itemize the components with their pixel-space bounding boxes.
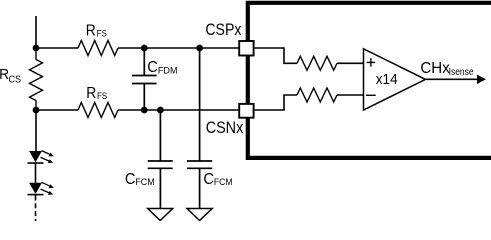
wire to op-amp minus input [337, 94, 364, 96]
LED D1 arrow 1 [42, 151, 51, 155]
LED D1 [35, 110, 37, 151]
wire to op-amp plus input [337, 62, 364, 64]
output wire [426, 78, 479, 80]
LED D2 arrow 1 [42, 182, 51, 186]
svg-text:CSNx: CSNx [206, 119, 244, 137]
node dot top-left [33, 45, 40, 52]
resistor RFS (bottom) [78, 103, 118, 118]
svg-text:C: C [147, 59, 158, 76]
capacitor CFDM [132, 48, 157, 110]
op-amp x14 [364, 49, 426, 110]
svg-text:C: C [203, 171, 214, 188]
node dot CFCM left branch [157, 107, 164, 114]
wire dashed continuation [35, 203, 37, 221]
pin CSPx [239, 41, 253, 56]
svg-text:FDM: FDM [158, 65, 178, 75]
node dot CFCM right branch [196, 45, 203, 52]
wire CSNx to input resistor [255, 95, 297, 110]
wire top stub [35, 16, 37, 48]
svg-text:Isense: Isense [449, 67, 474, 78]
node dot CFDM top [141, 45, 148, 52]
resistor RFS (top) [78, 41, 118, 56]
ground (right) [187, 209, 212, 221]
svg-text:FCM: FCM [214, 177, 233, 187]
wire bottom rail right [118, 109, 240, 111]
LED D2 [29, 183, 42, 194]
wire bottom rail left [36, 109, 78, 111]
wire top rail left [36, 47, 78, 49]
svg-text:CHx: CHx [420, 60, 449, 77]
svg-text:x14: x14 [376, 71, 398, 88]
svg-text:FS: FS [97, 29, 107, 39]
LED D2 arrow 2 [41, 189, 50, 193]
node dot CFDM bottom [141, 107, 148, 114]
capacitor CFCM (left) [148, 110, 173, 209]
ground (left) [148, 209, 173, 221]
svg-text:FCM: FCM [135, 177, 154, 187]
svg-text:C: C [125, 171, 136, 188]
output arrowhead [477, 75, 486, 84]
pin CSNx [239, 104, 253, 118]
op-amp plus sign [367, 58, 376, 66]
IC boundary [248, 3, 491, 158]
resistor RCS [30, 48, 43, 110]
resistor op-amp input (top) [297, 56, 337, 70]
wire below LED D2 [35, 195, 37, 201]
node dot bottom-left [33, 107, 40, 114]
wire CSPx to input resistor [255, 48, 297, 63]
svg-text:CS: CS [9, 74, 22, 85]
op-amp minus sign [366, 94, 376, 96]
svg-text:FS: FS [97, 91, 107, 101]
resistor op-amp input (bottom) [297, 88, 337, 102]
wire top rail right [118, 47, 240, 49]
capacitor CFCM (right) [187, 48, 212, 209]
LED D1 arrow 2 [41, 157, 50, 161]
wire between LEDs [35, 163, 37, 183]
svg-text:R: R [86, 85, 96, 102]
svg-text:R: R [86, 23, 96, 40]
svg-text:CSPx: CSPx [205, 21, 241, 39]
